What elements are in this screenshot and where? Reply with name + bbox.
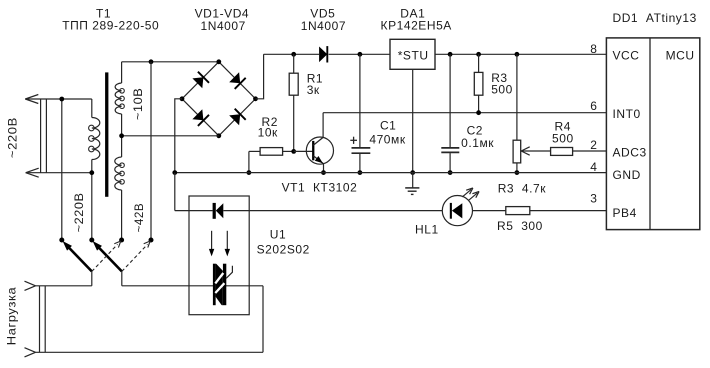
transformer T1 secondary winding ~10V (115, 62, 124, 136)
svg-text:VT1 КТ3102: VT1 КТ3102 (282, 180, 358, 194)
node pot ground (515, 170, 520, 175)
switch contact 1 (59, 238, 64, 243)
wire switch pivot 2 down (121, 271, 123, 285)
resistor R3 500 (474, 54, 483, 112)
node bridge top (216, 59, 221, 64)
node R3 top (476, 52, 481, 57)
U1 triac left bar (213, 264, 216, 306)
pin name INT0 (613, 107, 641, 121)
switch arm 1 dashed (92, 241, 121, 271)
wire 42V to switch contact 4 (150, 62, 152, 240)
wire bridge plus (256, 54, 264, 99)
switch arm 1 solid (63, 241, 92, 271)
label DD1 (613, 11, 697, 25)
svg-text:~220В: ~220В (5, 117, 19, 158)
label C1 plus (350, 137, 357, 144)
optocoupler U1 box (189, 196, 249, 315)
svg-text:8: 8 (590, 42, 597, 56)
svg-text:3: 3 (590, 192, 597, 206)
svg-text:MCU: MCU (666, 49, 695, 63)
pin 3 label (590, 192, 597, 206)
wire rectified rail (264, 53, 390, 55)
DD1 divider (649, 38, 651, 230)
potentiometer R3 4.7k (513, 54, 521, 172)
wire +5V rail (435, 53, 606, 55)
label T1 (62, 7, 159, 33)
svg-text:ТПП 289-220-50: ТПП 289-220-50 (62, 18, 159, 32)
svg-text:C1: C1 (380, 118, 396, 132)
svg-text:ADC3: ADC3 (613, 145, 647, 159)
svg-text:10к: 10к (258, 125, 278, 139)
pin name VCC (613, 49, 640, 63)
wire triac to load bottom (262, 286, 264, 353)
label VD1-VD4 (195, 7, 250, 33)
node bridge right (253, 96, 258, 101)
wire ground to U1 LED (175, 173, 213, 211)
label R3 4.7k (498, 181, 547, 195)
transistor VT1 emitter (313, 156, 323, 173)
node bridge left (180, 96, 185, 101)
label ~10V (131, 88, 145, 121)
wire secondary top to bridge (122, 61, 219, 63)
node ground rail left (172, 170, 177, 175)
svg-text:0.1мк: 0.1мк (461, 136, 494, 150)
U1 triac right bar (223, 264, 227, 306)
resistor R4 (551, 148, 607, 156)
svg-text:1N4007: 1N4007 (201, 19, 246, 33)
node R2 ground (247, 170, 252, 175)
U1 LED triangle (216, 203, 224, 218)
label R1 (307, 72, 323, 98)
svg-text:GND: GND (613, 168, 641, 182)
LED HL1 cathode bar (450, 203, 452, 219)
pin 6 label (590, 99, 597, 113)
potentiometer wiper (521, 147, 550, 155)
transformer T1 secondary winding ~42V (115, 136, 125, 240)
resistor R2 (249, 148, 294, 156)
wire bridge edge bottom-left (182, 99, 219, 136)
wire input pair lines (41, 99, 47, 173)
label VD5 (301, 7, 346, 33)
label C2 (461, 123, 494, 150)
LED HL1 arrow 1 (462, 188, 473, 197)
svg-text:Нагрузка: Нагрузка (5, 287, 19, 346)
node primary bottom junction (89, 170, 94, 175)
svg-text:DD1 ATtiny13: DD1 ATtiny13 (613, 11, 697, 25)
U1 triac body (215, 263, 224, 305)
pin 8 label (590, 42, 597, 56)
node R1 top (291, 52, 296, 57)
node C1 top (358, 52, 363, 57)
diode VD4 bridge bottom-right (229, 109, 246, 126)
diode VD3 bridge bottom-left (192, 109, 209, 126)
label ~220V input (5, 117, 19, 158)
U1 triac gate (226, 266, 232, 279)
transistor VT1 circle (306, 137, 333, 164)
U1 LED cathode bar (213, 203, 216, 219)
node C2 ground (448, 170, 453, 175)
node DA1 ground (410, 170, 415, 175)
wire switch to triac (122, 285, 263, 287)
wire base (294, 150, 314, 152)
svg-text:PB4: PB4 (613, 206, 637, 220)
transformer T1 core (105, 72, 108, 196)
U1 light arrow 2 (225, 231, 230, 257)
label R3 500 (491, 71, 513, 97)
label R5 (497, 219, 543, 233)
wire INT0 rail (323, 112, 606, 114)
pin 4 label (590, 160, 597, 174)
diode VD1 bridge top-left (192, 72, 209, 89)
wire U1 LED to HL1 (223, 210, 442, 212)
svg-text:S202S02: S202S02 (257, 242, 310, 256)
label VT1 (282, 180, 358, 194)
svg-text:470мк: 470мк (369, 133, 405, 147)
wire switch pivot 1 down (91, 271, 93, 285)
terminal load bottom arrow (25, 348, 264, 357)
wire ground rail (175, 172, 607, 174)
node secondary top junction (149, 59, 154, 64)
svg-text:4: 4 (590, 160, 597, 174)
switch contact 4 (149, 238, 154, 243)
label *STU (398, 49, 429, 63)
U1 light arrow 1 (209, 231, 214, 257)
capacitor C1 (352, 54, 371, 172)
diode VD5 (319, 46, 327, 62)
resistor R5 (473, 207, 607, 215)
pin 2 label (590, 138, 597, 152)
pin name GND (613, 168, 641, 182)
node VT1 emitter ground (321, 170, 326, 175)
label load (5, 287, 19, 346)
label ~220V switch (72, 192, 86, 232)
svg-text:6: 6 (590, 99, 597, 113)
svg-text:~220В: ~220В (72, 192, 86, 232)
switch contact 2 (89, 238, 94, 243)
wire primary bottom to switch contact 2 (91, 173, 93, 240)
svg-text:VCC: VCC (613, 49, 640, 63)
terminal load top arrow (25, 281, 92, 290)
label MCU (666, 49, 695, 63)
svg-text:3к: 3к (307, 83, 320, 97)
label U1 (257, 228, 310, 257)
node R3pot top (515, 52, 520, 57)
label ~42V switch (132, 203, 146, 233)
LED HL1 arrow 2 (469, 192, 480, 201)
svg-text:1N4007: 1N4007 (301, 19, 346, 33)
pin name ADC3 (613, 145, 647, 159)
label C1 (369, 118, 405, 146)
svg-text:U1: U1 (270, 228, 286, 242)
ground symbol (405, 173, 419, 195)
resistor R1 (289, 54, 298, 151)
pin name PB4 (613, 206, 637, 220)
svg-text:500: 500 (552, 132, 574, 146)
svg-text:~42В: ~42В (132, 203, 146, 233)
voltage regulator DA1 box (390, 39, 435, 69)
diode VD2 bridge top-right (229, 72, 246, 89)
capacitor C2 (441, 54, 459, 172)
switch arm 2 solid (93, 241, 122, 271)
node input top junction (59, 97, 64, 102)
microcontroller DD1 box (606, 38, 699, 230)
node transformer tap (119, 133, 124, 138)
wire bridge edge top-right (219, 62, 256, 99)
switch contact 3 (119, 238, 124, 243)
label R4 (552, 120, 574, 146)
svg-text:~10В: ~10В (131, 88, 145, 121)
label R2 (258, 115, 278, 139)
svg-text:R5 300: R5 300 (497, 219, 543, 233)
label DA1 (381, 7, 452, 33)
terminal ~220V input bottom arrow (26, 168, 92, 177)
wire bridge edge top-left (182, 62, 219, 99)
switch arm 2 dashed (122, 241, 150, 271)
LED HL1 circle (442, 196, 472, 226)
label HL1 (415, 222, 439, 236)
node C2 top (448, 52, 453, 57)
wire tap to bridge bottom (122, 135, 219, 137)
node bridge bottom (216, 133, 221, 138)
wire mains L to switch contact 1 (61, 99, 63, 240)
node VT1 base node (291, 149, 296, 154)
svg-text:INT0: INT0 (613, 107, 641, 121)
transistor VT1 collector (313, 113, 323, 146)
terminal ~220V input top arrow (25, 95, 92, 104)
svg-text:500: 500 (491, 83, 513, 97)
node C1 ground (358, 170, 363, 175)
LED HL1 triangle (452, 203, 462, 218)
svg-text:HL1: HL1 (415, 222, 439, 236)
svg-text:R3 4.7к: R3 4.7к (498, 181, 547, 195)
svg-text:2: 2 (590, 138, 597, 152)
wire R2 to ground rail (248, 151, 250, 172)
wire load pair lines (40, 286, 46, 353)
wire bridge edge bottom-right (219, 99, 256, 136)
svg-text:*STU: *STU (398, 49, 429, 63)
svg-text:КР142ЕН5А: КР142ЕН5А (381, 19, 452, 33)
node R3 bottom (476, 110, 481, 115)
wire bridge minus (175, 99, 182, 173)
wire DA1 ground pin (412, 69, 414, 172)
transistor VT1 base bar (312, 141, 314, 160)
transformer T1 primary winding (89, 99, 100, 173)
